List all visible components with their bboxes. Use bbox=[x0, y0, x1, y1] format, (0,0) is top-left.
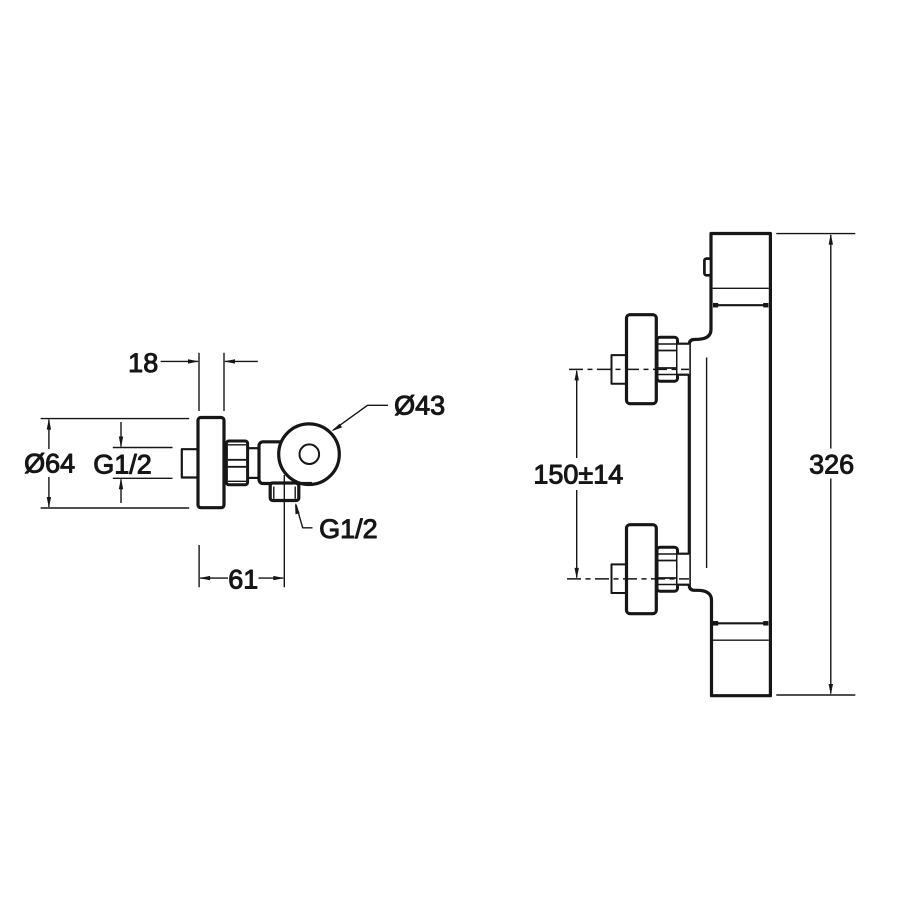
svg-text:61: 61 bbox=[228, 565, 258, 595]
dimension Ø64 extension lines bbox=[41, 418, 190, 420]
neck between nut and body (left view) bbox=[248, 447, 259, 449]
leader G1/2 (outlet) bbox=[296, 505, 313, 528]
dimension 18 lines and arrows bbox=[161, 360, 198, 362]
svg-text:18: 18 bbox=[128, 348, 158, 378]
dimension 61 lines and arrows bbox=[200, 577, 228, 579]
dimension G1/2 arrows (outside pointing in) bbox=[120, 422, 122, 447]
leader Ø43 bbox=[333, 405, 388, 430]
dimension 18 extension lines bbox=[198, 353, 200, 411]
top union nut bbox=[657, 337, 678, 381]
svg-text:326: 326 bbox=[809, 449, 854, 479]
top inlet stub G1/2 bbox=[612, 355, 629, 384]
wall flange Ø64 (left view) bbox=[198, 418, 224, 508]
retaining tab on top cap bbox=[704, 259, 711, 276]
top union flange bbox=[627, 315, 657, 404]
bottom cap inner thin line bbox=[713, 639, 769, 641]
dimension Ø64 lines and arrows bbox=[48, 420, 50, 449]
hex nut (left view) bbox=[226, 441, 247, 485]
top cap inner thin line bbox=[713, 287, 769, 289]
outlet stub G1/2 (left view) bbox=[270, 483, 299, 501]
body bottom edge continuation under circle bbox=[296, 482, 312, 485]
dimension G1/2 (wall stub) extension lines bbox=[113, 447, 173, 449]
bottom union collar bbox=[678, 554, 690, 585]
top union collar bbox=[678, 344, 690, 375]
dimension 326 line and arrows bbox=[830, 235, 832, 449]
valve head circle Ø43 bbox=[279, 424, 340, 485]
svg-text:150±14: 150±14 bbox=[533, 459, 623, 489]
valve body (left view) bbox=[259, 442, 302, 484]
top centerline bbox=[569, 368, 689, 370]
svg-text:G1/2: G1/2 bbox=[319, 514, 378, 544]
svg-text:Ø43: Ø43 bbox=[394, 391, 445, 421]
svg-text:Ø64: Ø64 bbox=[24, 449, 75, 479]
dimension 61 extension lines bbox=[198, 545, 200, 587]
bottom cap seam line with end ticks bbox=[714, 622, 768, 624]
dimension 326 extension lines bbox=[776, 233, 855, 235]
bottom union nut bbox=[657, 547, 678, 591]
bottom union flange bbox=[627, 525, 657, 614]
dimension 150±14 line and arrows bbox=[576, 371, 578, 458]
inner column edge line bbox=[706, 358, 708, 569]
nut facet lines (left view) bbox=[228, 459, 246, 461]
bottom inlet stub G1/2 bbox=[612, 564, 629, 593]
bottom centerline bbox=[567, 578, 689, 580]
svg-text:G1/2: G1/2 bbox=[93, 449, 152, 479]
top cap seam line with end ticks bbox=[714, 304, 768, 306]
column body outline bbox=[689, 234, 770, 696]
nut inner thin lines (left view) bbox=[228, 444, 246, 446]
outlet stub chamfer lines bbox=[273, 487, 275, 499]
wall inlet stub G1/2 (left view) bbox=[182, 449, 199, 477]
valve head inner circle bbox=[300, 444, 320, 464]
